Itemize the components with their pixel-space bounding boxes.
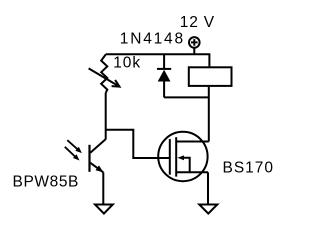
resistor arrow xyxy=(89,68,120,86)
transistor Q2 BS170 MOSFET xyxy=(158,132,209,181)
wire: gate net from collector node xyxy=(106,130,170,158)
wire: diode cathode bottom xyxy=(163,81,165,97)
wire: emitter to ground xyxy=(102,172,104,204)
svg-text:1N4148: 1N4148 xyxy=(120,31,185,48)
diode D1 1N4148 xyxy=(157,69,171,82)
wire: source to ground xyxy=(207,172,209,204)
svg-text:10k: 10k xyxy=(113,55,141,72)
light arrow 1 xyxy=(67,140,82,153)
wire: top supply rail with drop to relay xyxy=(106,54,209,66)
svg-text:BS170: BS170 xyxy=(223,160,275,177)
wire: diode to drain net xyxy=(164,96,209,98)
ground (right) xyxy=(199,205,217,214)
wire: supply terminal stub xyxy=(193,48,195,55)
power terminal +12V xyxy=(189,37,200,48)
svg-text:12 V: 12 V xyxy=(180,14,215,31)
transistor Q1 BPW85B phototransistor xyxy=(90,139,106,172)
svg-text:BPW85B: BPW85B xyxy=(13,173,80,190)
ground (left) xyxy=(95,205,113,214)
relay coil K1 xyxy=(189,67,232,86)
wire: diode anode top xyxy=(163,54,165,69)
light arrow 2 xyxy=(65,147,80,161)
wire: resistor bottom to collector xyxy=(105,93,107,140)
wire: relay bottom to MOSFET drain xyxy=(208,87,210,142)
resistor R1 10k variable xyxy=(101,54,107,93)
